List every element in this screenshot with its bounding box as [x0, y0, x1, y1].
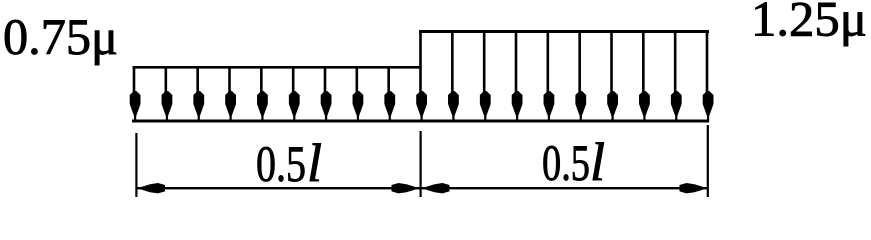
load arrow 9 [384, 67, 395, 122]
extension line left [135, 133, 137, 197]
load arrow 19 [703, 31, 714, 122]
dim arrow mid-right [422, 183, 450, 193]
dimension line right segment [421, 187, 707, 189]
dim arrow left end [137, 183, 165, 193]
svg-text:l: l [307, 133, 322, 193]
load arrow 2 [162, 67, 173, 122]
dimension line left segment [137, 187, 420, 189]
right load top line [419, 30, 709, 33]
load arrow 11 [448, 31, 459, 122]
dim arrow mid-left [392, 183, 420, 193]
load arrow 14 [544, 31, 555, 122]
load arrow 1 [130, 67, 141, 122]
load arrow 17 [639, 31, 650, 122]
svg-text:l: l [590, 132, 605, 192]
load arrow 5 [257, 67, 268, 122]
left load top line [133, 66, 422, 69]
load arrow 16 [607, 31, 618, 122]
svg-text:1.25μ: 1.25μ [751, 0, 867, 47]
extension line right [707, 125, 709, 197]
load arrow 8 [353, 67, 364, 122]
load arrow 4 [225, 67, 236, 122]
load arrow 12 [480, 31, 491, 122]
dim arrow right end [680, 183, 708, 193]
svg-text:0.5: 0.5 [256, 137, 306, 193]
svg-text:0.5: 0.5 [542, 136, 590, 192]
load arrow 15 [575, 31, 586, 122]
extension line middle [420, 131, 422, 197]
load arrow 6 [289, 67, 300, 122]
svg-text:0.75μ: 0.75μ [3, 10, 118, 66]
load arrow 13 [512, 31, 523, 122]
load arrow 10 [416, 31, 427, 122]
beam baseline [132, 120, 709, 123]
load arrow 7 [321, 67, 332, 122]
load arrow 3 [193, 67, 204, 122]
load arrow 18 [671, 31, 682, 122]
